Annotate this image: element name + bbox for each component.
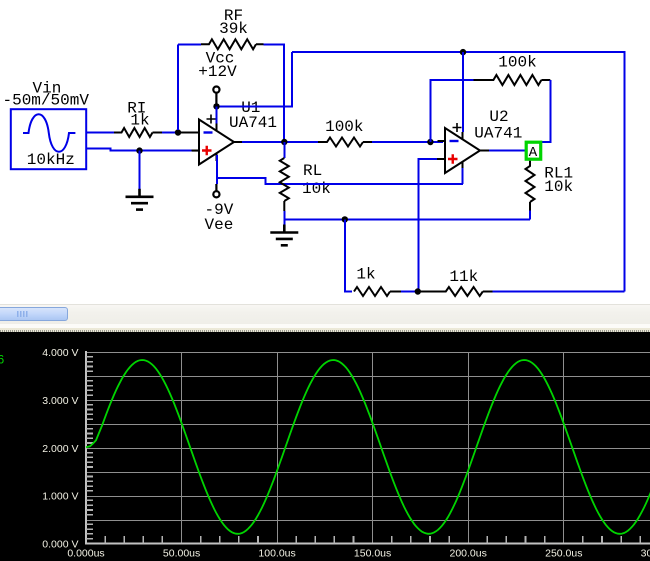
- node junction dot ground rail to 1k: [342, 216, 348, 222]
- svg-text:100k: 100k: [325, 118, 363, 136]
- svg-text:250.0us: 250.0us: [545, 547, 582, 559]
- probe A green box: [526, 142, 541, 159]
- svg-text:50.00us: 50.00us: [163, 547, 200, 559]
- wire U2 V- pin to -9V rail: [462, 168, 464, 184]
- resistor 1k: [354, 287, 401, 296]
- op-amp U2 UA741: [438, 123, 491, 173]
- wire 11k to right rail: [493, 291, 625, 293]
- sine symbol inside Vin source: [23, 114, 75, 152]
- svg-text:1k: 1k: [356, 266, 375, 284]
- svg-text:RL: RL: [303, 162, 322, 180]
- svg-text:4.000 V: 4.000 V: [42, 347, 78, 359]
- terminal Vcc open circle: [215, 93, 217, 106]
- svg-text:200.0us: 200.0us: [450, 547, 487, 559]
- wire U1 V+ pin from Vcc rail: [216, 106, 218, 128]
- svg-text:1k: 1k: [130, 112, 149, 130]
- scope x-axis ruler: [85, 543, 650, 545]
- svg-text:11k: 11k: [449, 268, 478, 286]
- svg-text:6: 6: [0, 353, 5, 367]
- svg-text:10k: 10k: [302, 180, 331, 198]
- scope x-axis time labels: [67, 547, 650, 559]
- svg-text:UA741: UA741: [229, 114, 277, 132]
- svg-text:300.0us: 300.0us: [641, 547, 650, 559]
- resistor RF 39k: [201, 39, 264, 49]
- wire 1k to divider node: [401, 291, 417, 293]
- ground G1: [126, 189, 154, 210]
- wire Vin- bottom to U1 + input: [86, 149, 192, 151]
- circuit schematic canvas: [0, 0, 650, 302]
- wire U2 feedback left vertical: [430, 80, 473, 142]
- svg-text:100k: 100k: [498, 54, 536, 72]
- resistor 11k: [420, 287, 493, 296]
- svg-text:10kHz: 10kHz: [27, 151, 75, 169]
- node junction dot top rail to U2 V+: [460, 49, 466, 55]
- wire U1 output to U2 inverting input: [242, 141, 318, 143]
- scope y-axis minor ticks: [86, 357, 93, 539]
- wire feedback right vertical down to probe node: [542, 80, 550, 142]
- wire U1 Vee pin down and right to U2 V- rail: [217, 155, 463, 184]
- svg-text:Vee: Vee: [205, 216, 234, 234]
- wire RF top left horizontal: [178, 43, 201, 45]
- scope y-axis ruler: [85, 351, 87, 543]
- node junction dot RI/RF/U1-: [175, 129, 181, 135]
- scope sine waveform trace: [86, 360, 650, 534]
- svg-text:A: A: [529, 145, 538, 161]
- scope y-axis voltage labels: [42, 347, 78, 550]
- node junction dot U2 inverting input: [427, 139, 433, 145]
- resistor RL 10k vertical: [283, 142, 285, 158]
- wire RI to U1 inverting input: [162, 132, 176, 134]
- svg-text:U2: U2: [489, 108, 508, 126]
- wire 1k left vertical from ground rail: [345, 219, 352, 291]
- scrollbar thumb: [0, 307, 68, 322]
- wire U2 V+ pin from top rail: [462, 52, 464, 132]
- wire U2 + input bias from 1k/11k divider: [419, 159, 439, 292]
- svg-text:1.000 V: 1.000 V: [42, 491, 78, 503]
- svg-text:2.000 V: 2.000 V: [42, 443, 78, 455]
- scope x-axis minor ticks: [105, 536, 640, 544]
- svg-text:100.0us: 100.0us: [258, 547, 295, 559]
- node junction dot U1 output / RL / RF: [281, 139, 287, 145]
- node junction dot Vcc: [213, 103, 219, 109]
- scope horizontal gridlines: [86, 353, 650, 521]
- wire ground rail to RL1 bottom: [284, 218, 530, 220]
- svg-text:UA741: UA741: [474, 125, 522, 143]
- wire RL bottom to ground: [283, 211, 285, 225]
- svg-text:+12V: +12V: [198, 63, 237, 81]
- node junction dot Vin-/ground: [136, 147, 142, 153]
- wire down to ground G1: [139, 151, 141, 189]
- resistor 100k feedback of U2: [474, 75, 551, 85]
- wire Vin+ to RI: [86, 132, 114, 134]
- ground G2 under RL: [270, 225, 298, 246]
- horizontal scrollbar and splitter: [0, 302, 650, 332]
- node Vin source V1 box: [11, 109, 86, 169]
- wire RF left vertical: [177, 44, 179, 130]
- svg-text:39k: 39k: [219, 20, 248, 38]
- oscilloscope plot panel: [0, 332, 650, 561]
- svg-text:3.000 V: 3.000 V: [42, 395, 78, 407]
- svg-text:150.0us: 150.0us: [354, 547, 391, 559]
- wire Vcc rail from terminal to top rail: [217, 52, 293, 106]
- wire 100k to U2- node: [372, 141, 443, 143]
- scope vertical gridlines: [182, 352, 564, 543]
- wire RF right horizontal and vertical down to U1 output node: [264, 44, 285, 139]
- resistor RL1 10k vertical: [526, 161, 535, 211]
- svg-text:-50m/50mV: -50m/50mV: [3, 92, 90, 110]
- resistor RI 1k: [114, 128, 176, 137]
- op-amp U1 UA741: [192, 115, 245, 165]
- svg-text:0.000us: 0.000us: [67, 547, 104, 559]
- node junction dot 1k/11k divider: [415, 288, 421, 294]
- wire RL1 bottom to ground rail: [529, 211, 531, 220]
- resistor 100k interstage: [318, 138, 372, 147]
- wire top +12V rail: [292, 52, 625, 291]
- wire U2 output to probe A: [489, 150, 525, 152]
- terminal Vee open circle: [215, 184, 217, 191]
- svg-text:10k: 10k: [544, 178, 573, 196]
